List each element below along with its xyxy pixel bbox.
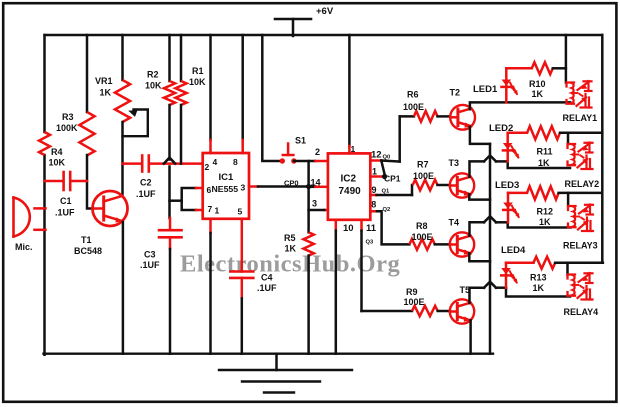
- wire C3 to ground bus: [169, 249, 172, 354]
- svg-text:CP0: CP0: [284, 179, 299, 188]
- wire Q0 to CP1: [381, 161, 385, 177]
- wire S1 node to CP0 node: [307, 161, 310, 187]
- wire R3 branch: [86, 35, 89, 112]
- ground: [275, 354, 278, 370]
- svg-text:NE555: NE555: [212, 184, 239, 194]
- svg-text:10K: 10K: [145, 81, 162, 91]
- resistor R10: [532, 62, 553, 74]
- svg-text:10K: 10K: [49, 158, 66, 168]
- resistor R11: [527, 126, 560, 139]
- wire LED4 to R13: [506, 261, 534, 264]
- svg-text:R6: R6: [407, 90, 419, 100]
- svg-text:.1UF: .1UF: [136, 189, 156, 199]
- wire T3 emitter: [469, 194, 490, 199]
- svg-text:9: 9: [372, 185, 377, 195]
- svg-text:2: 2: [205, 162, 210, 172]
- wire IC2 pin1 to bus: [348, 35, 351, 146]
- svg-text:Mic.: Mic.: [15, 242, 33, 252]
- microphone Mic.: [12, 198, 15, 237]
- capacitor C2: [123, 162, 141, 165]
- svg-text:Q3: Q3: [366, 240, 375, 246]
- svg-text:Q2: Q2: [383, 207, 391, 213]
- svg-text:C3: C3: [144, 250, 156, 260]
- svg-text:4: 4: [213, 157, 218, 167]
- wire R1 to pin2 net: [180, 105, 183, 164]
- svg-text:RELAY1: RELAY1: [563, 113, 598, 123]
- relay RELAY4: [568, 275, 576, 279]
- svg-text:1K: 1K: [539, 217, 551, 227]
- wire IC2 pin10 to ground: [335, 220, 338, 231]
- wire relay3 node down: [567, 193, 570, 206]
- svg-text:7: 7: [208, 204, 213, 214]
- svg-text:R5: R5: [284, 233, 296, 243]
- svg-text:IC2: IC2: [341, 174, 357, 185]
- wire C4 to ground bus: [241, 298, 244, 353]
- wire bottom ground bus: [44, 353, 494, 355]
- wire LED2 to R11: [508, 132, 527, 135]
- wire R1 top: [180, 35, 183, 81]
- svg-text:1: 1: [351, 144, 356, 154]
- potentiometer VR1: [115, 80, 130, 122]
- wire T5 collector rail: [470, 288, 485, 303]
- LED3: [503, 203, 513, 209]
- resistor R6: [414, 111, 438, 122]
- wire T4 emitter: [469, 253, 490, 261]
- svg-text:T3: T3: [449, 158, 460, 168]
- svg-text:8: 8: [371, 200, 376, 210]
- svg-text:7490: 7490: [339, 186, 362, 197]
- svg-text:1K: 1K: [100, 88, 112, 98]
- wire R5 to ground bus: [307, 256, 310, 354]
- relay RELAY2: [568, 144, 576, 148]
- svg-text:R4: R4: [51, 147, 63, 157]
- svg-text:100E: 100E: [413, 171, 434, 181]
- svg-text:10: 10: [343, 223, 354, 234]
- wire relay1 node to bus: [565, 35, 568, 83]
- wire S1 from bus: [262, 35, 282, 161]
- svg-text:100E: 100E: [412, 232, 433, 242]
- IC2 pin8 stub Q2: [370, 210, 377, 213]
- wire T1 emitter down: [122, 222, 125, 354]
- svg-text:RELAY2: RELAY2: [565, 179, 600, 189]
- svg-text:T2: T2: [450, 88, 461, 98]
- relay RELAY1: [567, 83, 575, 87]
- wire IC2 pin11 Q3: [360, 220, 363, 231]
- LED4: [501, 268, 511, 274]
- wire R2 top: [168, 35, 171, 81]
- svg-text:1K: 1K: [538, 158, 550, 168]
- wire relay4 node down: [566, 263, 569, 275]
- node CP0 junction: [306, 184, 311, 189]
- svg-text:100K: 100K: [56, 123, 78, 133]
- wire R10 to relay1 node: [553, 67, 566, 70]
- op-amp IC1 body: [203, 153, 249, 219]
- svg-text:ElectronicsHub.Org: ElectronicsHub.Org: [180, 251, 400, 278]
- svg-text:LED1: LED1: [473, 84, 498, 95]
- svg-text:12: 12: [371, 150, 382, 161]
- svg-text:1K: 1K: [532, 89, 544, 99]
- wire LED2 branch: [506, 133, 509, 162]
- wire VR1 to collector: [121, 122, 124, 196]
- transistor T2: [450, 105, 475, 130]
- svg-text:11: 11: [366, 223, 377, 234]
- wire R5 top: [307, 187, 310, 233]
- IC2 pin9 stub Q1: [370, 194, 376, 197]
- svg-text:IC1: IC1: [219, 172, 235, 183]
- transistor T5: [450, 299, 474, 323]
- wire R9 to T5 base: [438, 310, 450, 313]
- transistor T3: [450, 173, 474, 197]
- wire T2 collector rail: [470, 102, 570, 109]
- svg-text:R1: R1: [192, 66, 204, 76]
- wire IC1 pin5 to C4: [241, 219, 244, 272]
- wire right +V rail: [601, 35, 604, 263]
- svg-text:R2: R2: [147, 70, 159, 80]
- IC2 pin12 stub Q0: [370, 159, 381, 162]
- LED2: [503, 143, 513, 149]
- wire relay2 node down: [567, 133, 570, 144]
- svg-text:.1UF: .1UF: [140, 260, 160, 270]
- svg-text:R7: R7: [417, 160, 429, 170]
- wire LED3 branch: [507, 193, 510, 222]
- resistor R2: [164, 81, 175, 105]
- wire pin6-7 link: [170, 199, 182, 202]
- svg-text:14: 14: [311, 178, 321, 188]
- wire IC1 pin1 to ground: [209, 219, 212, 233]
- wire IC1 pin3 out: [249, 185, 258, 188]
- LED1: [502, 80, 512, 86]
- wire S1 to IC2 pin2: [294, 160, 316, 163]
- svg-text:LED3: LED3: [495, 180, 519, 191]
- svg-text:1K: 1K: [533, 283, 545, 293]
- wire R7 to T3 base: [438, 184, 451, 187]
- capacitor C3: [169, 218, 172, 230]
- wire T2 emitter: [470, 127, 490, 144]
- wire R3 to T1 base: [87, 155, 93, 209]
- svg-text:10K: 10K: [189, 77, 206, 87]
- svg-text:R11: R11: [537, 147, 553, 157]
- wire R11 to rail: [560, 132, 602, 135]
- svg-text:R10: R10: [529, 79, 546, 89]
- capacitor C4: [230, 270, 253, 273]
- svg-text:RELAY3: RELAY3: [563, 241, 598, 251]
- wire R12 to rail: [559, 192, 602, 195]
- svg-text:R8: R8: [416, 221, 428, 231]
- wire left rail: [43, 35, 46, 132]
- svg-text:100E: 100E: [403, 102, 424, 112]
- resistor R12: [527, 186, 559, 199]
- wire T3 collector rail: [470, 161, 485, 176]
- resistor R13: [534, 257, 556, 269]
- svg-text:R12: R12: [537, 207, 554, 217]
- svg-text:.1UF: .1UF: [257, 283, 277, 293]
- wire top +V bus: [45, 34, 603, 36]
- wire emitter bus: [489, 144, 492, 354]
- relay RELAY3: [568, 206, 576, 210]
- svg-text:1: 1: [372, 167, 377, 177]
- resistor R5: [303, 232, 313, 255]
- svg-text:3: 3: [241, 183, 246, 193]
- resistor R9: [412, 306, 438, 316]
- svg-text:1K: 1K: [285, 244, 297, 254]
- svg-text:LED4: LED4: [501, 245, 526, 256]
- wire IC1 pin8 to bus: [241, 35, 244, 140]
- VR1 wiper: [128, 110, 137, 117]
- svg-text:.1UF: .1UF: [55, 208, 75, 218]
- resistor R3: [79, 112, 94, 156]
- svg-text:RELAY4: RELAY4: [564, 307, 599, 317]
- wire R13 to rail: [555, 261, 603, 264]
- svg-text:C1: C1: [60, 196, 72, 206]
- wire Q1 to R7: [377, 194, 413, 197]
- wire LED1 to R10: [506, 67, 532, 70]
- svg-text:+6V: +6V: [316, 6, 334, 17]
- wire IC1 pin4 to bus: [209, 35, 212, 140]
- wire Q2 to R8: [377, 211, 409, 244]
- svg-text:R9: R9: [406, 287, 418, 297]
- wire LED4 branch: [505, 263, 508, 288]
- wire R2 down with hop: [168, 105, 171, 160]
- counter IC2 body: [328, 153, 370, 219]
- switch S1: [280, 158, 285, 163]
- +6V supply symbol: [275, 18, 311, 21]
- svg-text:8: 8: [233, 157, 238, 167]
- resistor R4: [39, 132, 50, 155]
- svg-text:5: 5: [238, 207, 243, 217]
- svg-text:T4: T4: [449, 218, 460, 228]
- wire LED1 branch: [505, 68, 508, 102]
- wire VR1 top: [121, 35, 124, 80]
- svg-text:1: 1: [215, 206, 220, 216]
- resistor R7: [413, 180, 438, 191]
- svg-text:VR1: VR1: [95, 76, 113, 86]
- svg-text:R3: R3: [62, 112, 74, 122]
- capacitor C1: [45, 180, 62, 183]
- wire R6 to T2 base: [438, 115, 451, 118]
- wire LED3 to R12: [508, 192, 527, 195]
- resistor R1: [175, 81, 186, 105]
- svg-text:Q1: Q1: [382, 189, 391, 195]
- svg-text:S1: S1: [295, 136, 306, 146]
- wire CP0 to IC2 pin14: [309, 186, 316, 189]
- svg-text:C2: C2: [140, 178, 152, 188]
- transistor T1: [93, 191, 128, 226]
- svg-text:BC548: BC548: [74, 246, 102, 256]
- svg-text:C4: C4: [261, 273, 273, 283]
- wire R8 to T4 base: [435, 243, 450, 246]
- wire Q0 to R6: [381, 161, 399, 162]
- wire T5 emitter: [469, 320, 472, 353]
- svg-text:6: 6: [207, 185, 212, 195]
- svg-text:2: 2: [315, 147, 320, 157]
- svg-text:T1: T1: [81, 235, 92, 245]
- svg-text:R13: R13: [530, 273, 547, 283]
- svg-text:100E: 100E: [404, 297, 425, 307]
- resistor R8: [409, 239, 434, 250]
- wire T4 collector rail: [470, 222, 485, 236]
- transistor T4: [450, 232, 474, 256]
- IC2 pin1 CP1 stub: [370, 175, 383, 178]
- svg-text:3: 3: [312, 199, 317, 209]
- wire IC2 pin3 stub: [324, 209, 328, 212]
